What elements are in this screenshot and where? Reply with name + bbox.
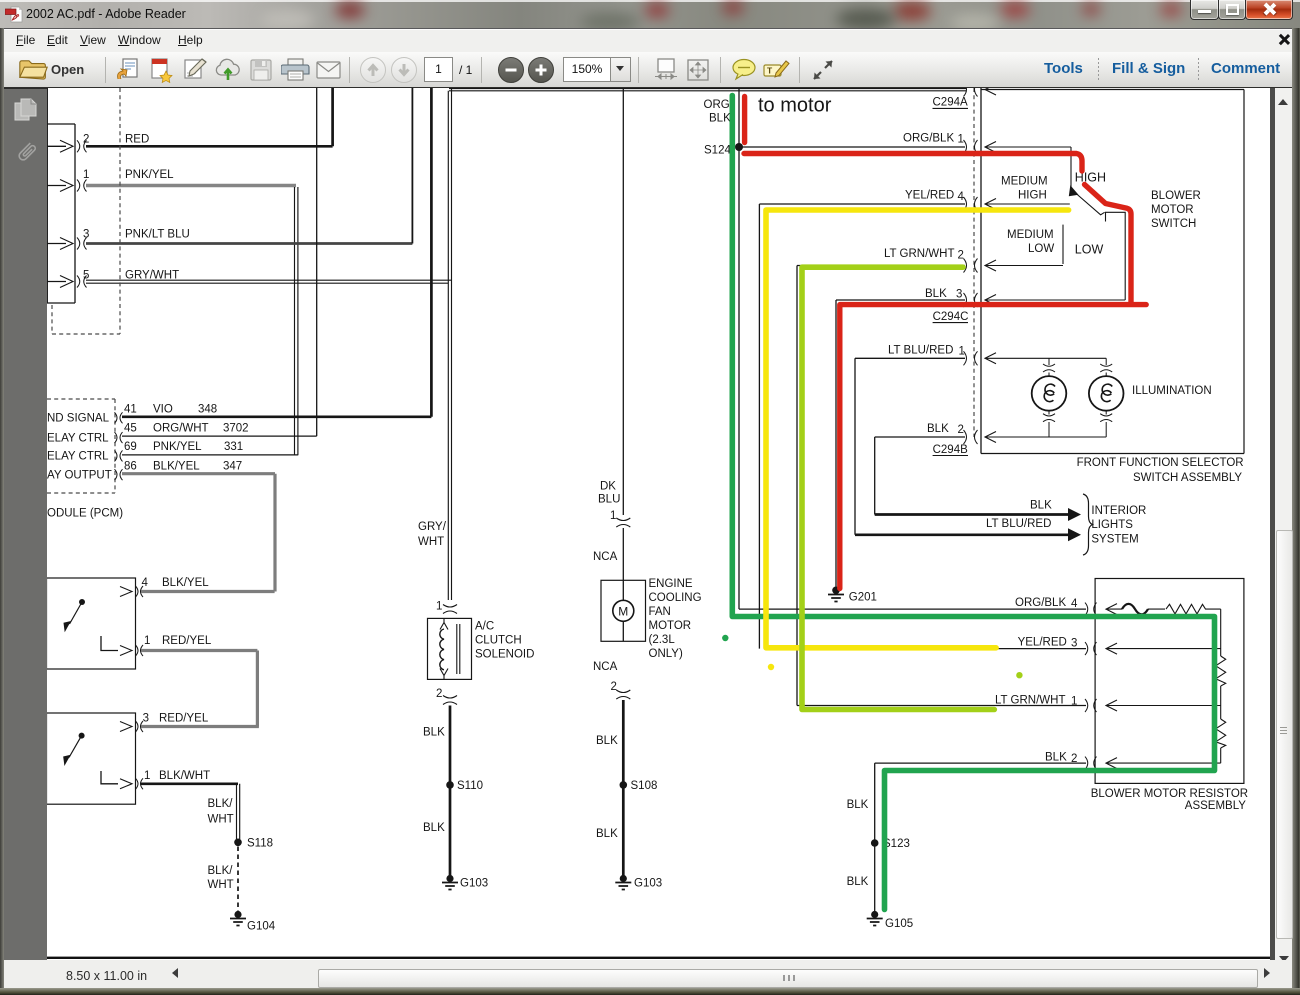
svg-text:G103: G103 [634,878,662,890]
svg-text:LT BLU/RED: LT BLU/RED [986,518,1051,530]
svg-text:T: T [767,66,773,76]
svg-text:HIGH: HIGH [1018,190,1047,202]
svg-text:2: 2 [958,250,964,262]
svg-text:(2.3L: (2.3L [649,634,676,646]
svg-text:S124: S124 [704,145,731,157]
svg-text:INTERIOR: INTERIOR [1091,505,1146,517]
svg-text:5: 5 [83,270,89,282]
svg-text:G103: G103 [460,878,488,890]
svg-text:ONLY): ONLY) [649,648,683,660]
svg-text:SWITCH: SWITCH [1151,218,1196,230]
svg-text:M: M [618,604,628,618]
svg-text:MOTOR: MOTOR [649,620,692,632]
svg-text:PNK/YEL: PNK/YEL [125,169,174,181]
svg-text:ELAY CTRL: ELAY CTRL [47,432,109,444]
svg-text:GRY/: GRY/ [418,521,447,533]
svg-text:2: 2 [1071,753,1077,765]
svg-text:G201: G201 [849,591,877,603]
svg-text:3: 3 [956,289,962,301]
svg-text:C294C: C294C [933,311,969,323]
svg-text:PNK/LT BLU: PNK/LT BLU [125,228,190,240]
svg-text:C294B: C294B [933,444,968,456]
svg-text:ND SIGNAL: ND SIGNAL [47,413,110,425]
svg-text:BLK: BLK [1030,499,1052,511]
svg-text:PNK/YEL: PNK/YEL [153,441,202,453]
svg-text:2: 2 [958,424,964,436]
svg-text:1: 1 [83,169,89,181]
svg-text:BLK: BLK [927,423,949,435]
svg-text:2: 2 [436,688,442,700]
svg-text:SWITCH ASSEMBLY: SWITCH ASSEMBLY [1133,472,1242,484]
svg-text:SOLENOID: SOLENOID [475,649,534,661]
svg-text:NCA: NCA [593,551,618,563]
svg-text:ODULE (PCM): ODULE (PCM) [47,508,123,520]
svg-text:BLK/YEL: BLK/YEL [153,460,200,472]
svg-text:LIGHTS: LIGHTS [1091,519,1133,531]
svg-text:YEL/RED: YEL/RED [1018,636,1067,648]
svg-text:NCA: NCA [593,661,618,673]
svg-text:MEDIUM: MEDIUM [1007,229,1054,241]
svg-text:SYSTEM: SYSTEM [1091,534,1138,546]
svg-text:LT GRN/WHT: LT GRN/WHT [884,248,955,260]
svg-text:WHT: WHT [208,813,234,825]
svg-text:S118: S118 [247,837,273,849]
svg-text:RED/YEL: RED/YEL [162,635,212,647]
svg-text:LOW: LOW [1075,242,1104,256]
svg-text:AY OUTPUT: AY OUTPUT [47,469,112,481]
svg-text:BLOWER: BLOWER [1151,190,1201,202]
svg-text:BLK: BLK [709,113,731,125]
svg-text:348: 348 [198,403,217,415]
svg-text:BLK: BLK [847,876,869,888]
svg-text:331: 331 [224,441,243,453]
svg-text:RED: RED [125,134,149,146]
svg-text:BLK: BLK [925,288,947,300]
svg-text:BLK: BLK [423,822,445,834]
svg-text:BLK: BLK [1045,752,1067,764]
svg-text:BLOWER MOTOR RESISTOR: BLOWER MOTOR RESISTOR [1091,788,1248,800]
svg-text:ELAY CTRL: ELAY CTRL [47,451,109,463]
svg-text:3: 3 [143,713,149,725]
svg-text:1: 1 [144,770,150,782]
svg-text:3702: 3702 [223,423,249,435]
svg-text:DK: DK [600,481,616,493]
svg-text:BLU: BLU [598,493,620,505]
svg-text:ORG/: ORG/ [704,99,734,111]
svg-text:BLK/WHT: BLK/WHT [159,770,210,782]
svg-text:CLUTCH: CLUTCH [475,635,522,647]
svg-text:ORG/WHT: ORG/WHT [153,423,209,435]
svg-text:3: 3 [1071,638,1077,650]
svg-text:2: 2 [83,134,89,146]
svg-text:G105: G105 [885,918,913,930]
svg-text:3: 3 [83,228,89,240]
svg-text:BLK/: BLK/ [208,798,234,810]
svg-text:BLK: BLK [596,735,618,747]
svg-text:BLK: BLK [423,727,445,739]
svg-text:VIO: VIO [153,403,173,415]
svg-text:BLK: BLK [847,799,869,811]
svg-text:ASSEMBLY: ASSEMBLY [1185,800,1246,812]
svg-text:1: 1 [610,510,616,522]
svg-text:S108: S108 [631,780,658,792]
svg-text:BLK: BLK [596,828,618,840]
svg-text:WHT: WHT [208,879,234,891]
svg-text:C294A: C294A [933,97,968,109]
svg-text:MOTOR: MOTOR [1151,204,1194,216]
svg-text:347: 347 [223,460,242,472]
svg-text:LT GRN/WHT: LT GRN/WHT [995,694,1066,706]
svg-text:86: 86 [124,460,137,472]
svg-text:RED/YEL: RED/YEL [159,713,209,725]
svg-text:COOLING: COOLING [649,592,702,604]
svg-text:S110: S110 [457,780,483,792]
svg-text:FAN: FAN [649,606,671,618]
svg-text:YEL/RED: YEL/RED [905,190,954,202]
svg-text:ORG/BLK: ORG/BLK [903,132,954,144]
svg-text:4: 4 [1071,598,1078,610]
svg-text:4: 4 [142,577,149,589]
svg-text:ILLUMINATION: ILLUMINATION [1132,385,1212,397]
svg-text:GRY/WHT: GRY/WHT [125,270,179,282]
svg-text:1: 1 [958,134,964,146]
svg-text:WHT: WHT [418,536,444,548]
svg-text:HIGH: HIGH [1075,171,1106,185]
svg-text:BLK/: BLK/ [208,865,234,877]
svg-text:ORG/BLK: ORG/BLK [1015,597,1066,609]
svg-text:BLK/YEL: BLK/YEL [162,577,209,589]
svg-text:MEDIUM: MEDIUM [1001,176,1048,188]
svg-text:45: 45 [124,423,137,435]
svg-text:69: 69 [124,441,137,453]
svg-text:A/C: A/C [475,621,494,633]
svg-text:LT BLU/RED: LT BLU/RED [888,345,953,357]
svg-text:LOW: LOW [1028,243,1054,255]
svg-text:1: 1 [1071,696,1077,708]
svg-text:41: 41 [124,403,137,415]
svg-text:FRONT FUNCTION SELECTOR: FRONT FUNCTION SELECTOR [1077,457,1244,469]
svg-text:2: 2 [611,681,617,693]
svg-text:G104: G104 [247,921,276,933]
svg-text:1: 1 [144,635,150,647]
svg-text:to motor: to motor [758,95,832,117]
svg-text:ENGINE: ENGINE [649,578,693,590]
svg-text:1: 1 [436,601,442,613]
